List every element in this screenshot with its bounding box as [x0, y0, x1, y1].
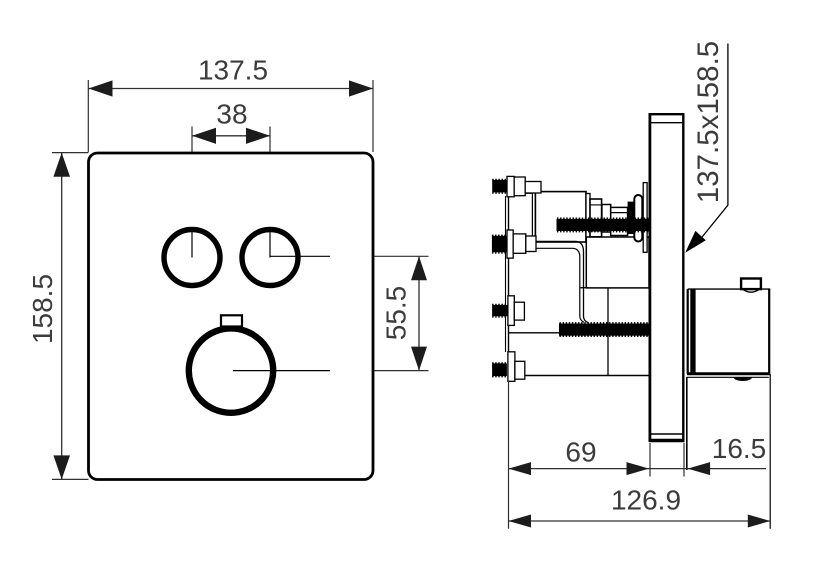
svg-text:69: 69 — [565, 437, 596, 468]
svg-text:55.5: 55.5 — [381, 286, 412, 341]
svg-text:38: 38 — [216, 99, 247, 130]
svg-text:158.5: 158.5 — [27, 274, 58, 344]
svg-text:137.5: 137.5 — [198, 55, 268, 86]
svg-text:16.5: 16.5 — [712, 433, 767, 464]
svg-text:126.9: 126.9 — [611, 485, 681, 516]
svg-text:137.5x158.5: 137.5x158.5 — [692, 41, 725, 203]
